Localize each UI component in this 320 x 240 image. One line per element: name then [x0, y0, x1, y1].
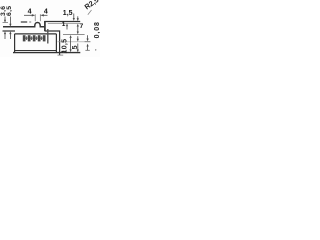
dot mark [95, 49, 96, 50]
dim 10,5 line and arrows [70, 35, 72, 38]
body top extension line [63, 34, 85, 36]
tab step vertical [44, 21, 46, 31]
svg-text:4: 4 [44, 8, 48, 15]
svg-text:4: 4 [28, 8, 32, 15]
arrow blob at baseline end [61, 51, 64, 53]
dim 3,6 stem and arrow [4, 17, 6, 21]
left lower flange line [3, 30, 16, 32]
internal vertical bar [47, 29, 49, 44]
right small dim arrows [87, 35, 89, 39]
tab top surface with dome bump [3, 23, 44, 27]
hidden line dash long [21, 21, 27, 23]
dim 1,5 arrow [73, 14, 75, 19]
right tab bottom surface [48, 23, 80, 25]
dim 7 arrows [77, 16, 79, 18]
dome edge extension ticks [34, 14, 36, 21]
dome apex extension line [3, 22, 9, 24]
right lower flange line into pin [45, 31, 60, 55]
right tab top surface [44, 21, 80, 23]
svg-text:1,5: 1,5 [63, 10, 73, 17]
dim 4 left line and arrow [24, 14, 33, 16]
pin shoulder extension line [58, 41, 91, 43]
svg-text:10,5: 10,5 [62, 39, 69, 54]
pin tip extension dash [58, 54, 64, 56]
background [0, 0, 100, 57]
dim 1 up arrow [66, 23, 68, 26]
body inner bottom line [15, 50, 57, 52]
contact teeth row [23, 35, 46, 41]
dim 4 right line and arrow [43, 14, 48, 16]
leader R2,5 [88, 10, 92, 15]
svg-text:1: 1 [62, 21, 66, 28]
dim 5 arrows [77, 36, 79, 39]
hidden line dash short [29, 21, 31, 23]
lower up-arrows under flange [4, 31, 6, 34]
dim 6,5 stem and arrow [9, 17, 11, 25]
body outline [15, 34, 57, 53]
right small dim ticks [85, 41, 91, 43]
svg-text:6,5: 6,5 [6, 6, 13, 16]
svg-text:0,08: 0,08 [94, 21, 100, 38]
baseline [13, 52, 80, 54]
svg-text:7: 7 [80, 23, 84, 30]
teeth gap cross marks [26, 36, 43, 40]
